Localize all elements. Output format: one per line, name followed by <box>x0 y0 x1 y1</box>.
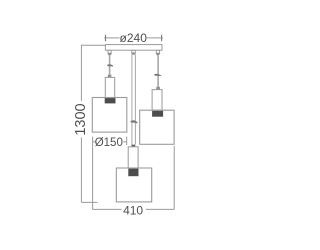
cord left <box>109 55 111 75</box>
svg-text:Ø150: Ø150 <box>95 137 123 149</box>
cord grip left <box>107 50 112 55</box>
cord adjuster center <box>130 120 137 123</box>
glass shade left <box>92 98 127 133</box>
svg-text:1300: 1300 <box>73 103 89 135</box>
glass shade right <box>140 110 174 144</box>
dimension 1300 vertical <box>81 45 105 203</box>
cord connector center <box>131 145 135 147</box>
cord grip right <box>156 50 161 55</box>
cord adjuster left <box>107 64 113 66</box>
dimension Ø150 <box>93 137 127 210</box>
shade fitter right <box>152 111 163 117</box>
cord adjuster right <box>154 74 161 76</box>
holder tube right <box>152 90 162 111</box>
shade fitter center <box>128 169 138 177</box>
cord grip center <box>131 50 136 54</box>
shade fitter left <box>105 98 116 103</box>
socket cap right <box>156 87 160 90</box>
cord right <box>157 55 159 87</box>
svg-text:410: 410 <box>123 204 143 218</box>
double cord center <box>132 55 136 145</box>
glass shade center <box>116 168 151 202</box>
ceiling canopy <box>105 45 162 51</box>
socket cap left <box>108 75 112 78</box>
holder tube left <box>105 77 114 97</box>
dimension line ø240 <box>104 35 163 41</box>
dimension 410 <box>93 146 175 209</box>
holder tube center <box>128 147 138 168</box>
svg-text:ø240: ø240 <box>120 31 148 45</box>
